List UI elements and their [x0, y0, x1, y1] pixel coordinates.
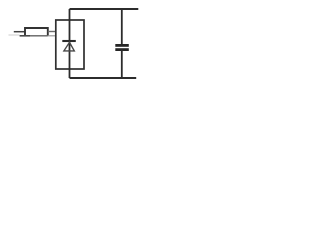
wire: bottom input lead last segment [48, 35, 56, 37]
capacitor C1 bottom plate [115, 48, 129, 51]
diode D1 triangle (anode, pointing up) [64, 42, 74, 51]
resistor R1 body [25, 28, 48, 36]
wire: bottom input lead middle [30, 35, 48, 37]
wire: bottom rail [70, 77, 137, 79]
capacitor C1 top plate [115, 44, 129, 47]
circuit schematic: series resistor input, diode rectifier block, smoothing capacitor [0, 0, 161, 88]
wire: top-left input stub [14, 31, 25, 33]
box U1 (rectifier block) [56, 20, 84, 69]
wire: bottom-left faint stub [9, 34, 20, 36]
wire: capacitor branch upper [121, 9, 123, 45]
wire: top rail [70, 8, 139, 10]
wire: resistor to box [48, 31, 56, 33]
wire: bottom input lead darker part [20, 35, 30, 37]
diode D1 cathode bar [62, 40, 76, 42]
wire: vertical from top rail through diode to bottom rail [69, 9, 71, 78]
wire: capacitor branch lower [121, 49, 123, 78]
